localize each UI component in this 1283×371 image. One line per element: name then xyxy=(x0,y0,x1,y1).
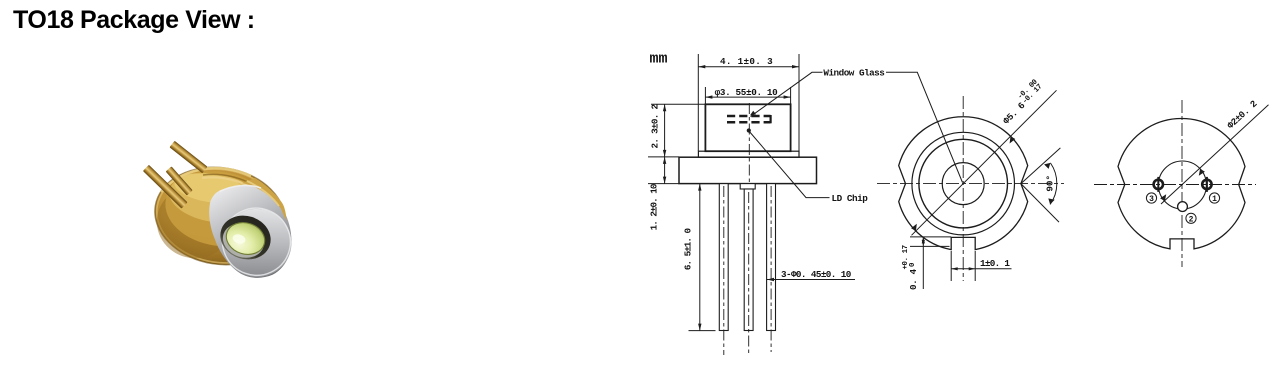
window circle xyxy=(942,163,984,205)
pin middle xyxy=(744,189,753,331)
dimension 4.1±0.3 line xyxy=(698,66,799,68)
arrow arc top xyxy=(1044,163,1050,169)
dimension 4.1±0.3 extension lines xyxy=(698,54,799,151)
window glass dashed rectangle xyxy=(727,116,771,122)
cap face (silver) xyxy=(212,199,301,287)
main centerline xyxy=(748,103,750,192)
cap body rectangle xyxy=(705,104,790,151)
centerline pin middle xyxy=(748,192,750,356)
arrow 3-Φ0.45 xyxy=(767,278,774,281)
svg-text:φ3. 55±0. 10: φ3. 55±0. 10 xyxy=(715,87,779,98)
gold flange wedge above cap xyxy=(242,178,287,221)
svg-text:LD Chip: LD Chip xyxy=(832,193,869,204)
arrow bottom 1.2 xyxy=(663,177,666,184)
outer flange circle with notches xyxy=(899,117,1028,250)
text Φ5.6 -0.00/-0.17 rotated xyxy=(997,78,1046,127)
step ring edge line xyxy=(203,174,280,206)
svg-text:90°: 90° xyxy=(1045,175,1056,192)
cap rim rectangle xyxy=(698,151,799,157)
arrow 0.4 top xyxy=(922,237,925,244)
pin right xyxy=(767,184,776,331)
label circled 2 xyxy=(1186,213,1196,224)
window glass dashed right end xyxy=(769,115,771,123)
dimension φ3.55±0.10 line xyxy=(705,96,790,98)
svg-text:Window Glass: Window Glass xyxy=(823,68,885,79)
label circled 3 xyxy=(1146,193,1156,204)
cap back rim highlight xyxy=(220,185,262,191)
text 0.4 +0.17/0 rotated xyxy=(902,245,919,290)
centerline vertical view2 xyxy=(962,96,964,281)
centerline vertical view3 xyxy=(1181,100,1183,267)
dimension 2.3±0.2 line xyxy=(664,104,666,157)
arrow Φ5.6 lower xyxy=(911,224,917,231)
dimension 0.4 line xyxy=(922,237,924,289)
bright bevel inside aperture xyxy=(218,218,268,263)
svg-text:1: 1 xyxy=(1212,195,1217,204)
flange bright rim top xyxy=(161,168,251,192)
svg-text:3-Φ0. 45±0. 10: 3-Φ0. 45±0. 10 xyxy=(781,269,852,280)
dimension 6.5±1.0 line xyxy=(699,184,701,331)
arrow Φ2 lower xyxy=(1160,194,1166,201)
pin 1 (right) xyxy=(1202,177,1211,192)
svg-text:1±0. 1: 1±0. 1 xyxy=(980,258,1010,269)
dimension 0.4 extension lines xyxy=(910,237,951,247)
arrow left 4.1 xyxy=(698,65,705,68)
pin middle xyxy=(166,166,193,195)
arrow Φ5.6 upper xyxy=(1010,136,1016,143)
arrow top 6.5 xyxy=(698,184,701,191)
dimension Φ5.6 diagonal line xyxy=(912,90,1057,235)
window glass leader left xyxy=(751,72,823,116)
label circled 1 xyxy=(1209,193,1219,204)
arrow 1±0.1 right xyxy=(969,267,976,270)
centerline horizontal view3 xyxy=(1094,184,1256,186)
aperture ring (dark) xyxy=(215,209,277,266)
svg-text:4. 1±0. 3: 4. 1±0. 3 xyxy=(720,56,773,67)
leader 3-Φ0.45 xyxy=(767,279,855,281)
step highlight xyxy=(202,177,278,209)
svg-text:0. 4: 0. 4 xyxy=(908,268,919,290)
svg-text:2. 3±0. 2: 2. 3±0. 2 xyxy=(650,104,661,149)
90° angle line lower xyxy=(1021,184,1059,223)
pin circle Φ2 xyxy=(1158,161,1206,209)
arrow bottom 6.5 xyxy=(698,324,701,331)
dimension Φ2 leader line xyxy=(1161,105,1269,204)
outer circle with notches view3 xyxy=(1118,118,1245,248)
extension line at pin bottoms xyxy=(689,330,716,332)
dimension 1±0.1 line xyxy=(951,268,1011,270)
cap top circle xyxy=(919,139,1008,228)
flange (stem) rectangle xyxy=(679,157,817,183)
arrow right 4.1 xyxy=(792,65,799,68)
centerline horizontal view2 xyxy=(877,183,1064,185)
dimension φ3.55±0.10 extension lines xyxy=(705,87,790,104)
arrow bottom 2.3 xyxy=(663,150,666,157)
arrow left 3.55 xyxy=(705,95,712,98)
centerline pin right xyxy=(770,186,772,352)
90° angle line upper xyxy=(1021,148,1061,184)
svg-text:Φ2±0. 2: Φ2±0. 2 xyxy=(1225,98,1260,131)
90° arc xyxy=(1050,163,1057,205)
dimension 1±0.1 extension lines below tab xyxy=(951,251,975,281)
arrow arc bottom xyxy=(1048,198,1054,204)
flange disc (gold) xyxy=(148,158,292,274)
svg-text:1. 2±0. 10: 1. 2±0. 10 xyxy=(649,183,660,230)
pin middle seat xyxy=(740,184,755,189)
pin top xyxy=(169,141,207,173)
cap rim circle xyxy=(912,132,1015,235)
pin left xyxy=(143,165,188,209)
arrow 1±0.1 left xyxy=(951,267,958,270)
svg-text:6. 5±1. 0: 6. 5±1. 0 xyxy=(682,227,693,270)
arrow 0.4 bottom xyxy=(922,240,925,247)
window glass (yellow-green) xyxy=(222,218,269,260)
pin 3 (left) xyxy=(1154,177,1163,192)
svg-text:mm: mm xyxy=(650,51,668,68)
window glass leader right xyxy=(886,72,963,182)
dimension 1.2±0.10 line xyxy=(648,157,679,184)
dimension 2.3±0.2 extension lines xyxy=(648,104,705,157)
svg-text:3: 3 xyxy=(1149,195,1154,204)
arrow Φ2 upper xyxy=(1199,169,1205,176)
pin left xyxy=(719,184,728,331)
centerline pin left xyxy=(723,186,725,355)
arrow right 3.55 xyxy=(784,95,791,98)
arrow top 2.3 xyxy=(663,104,666,111)
LD chip dot xyxy=(747,128,751,132)
svg-text:2: 2 xyxy=(1189,215,1194,224)
cap body (silver cylinder side) xyxy=(209,186,291,278)
arrow top 1.2 xyxy=(663,157,666,164)
pin 2 (bottom) xyxy=(1178,202,1188,212)
title xyxy=(13,6,255,35)
window glass leader arrow xyxy=(750,111,756,116)
LD chip leader xyxy=(750,132,830,198)
